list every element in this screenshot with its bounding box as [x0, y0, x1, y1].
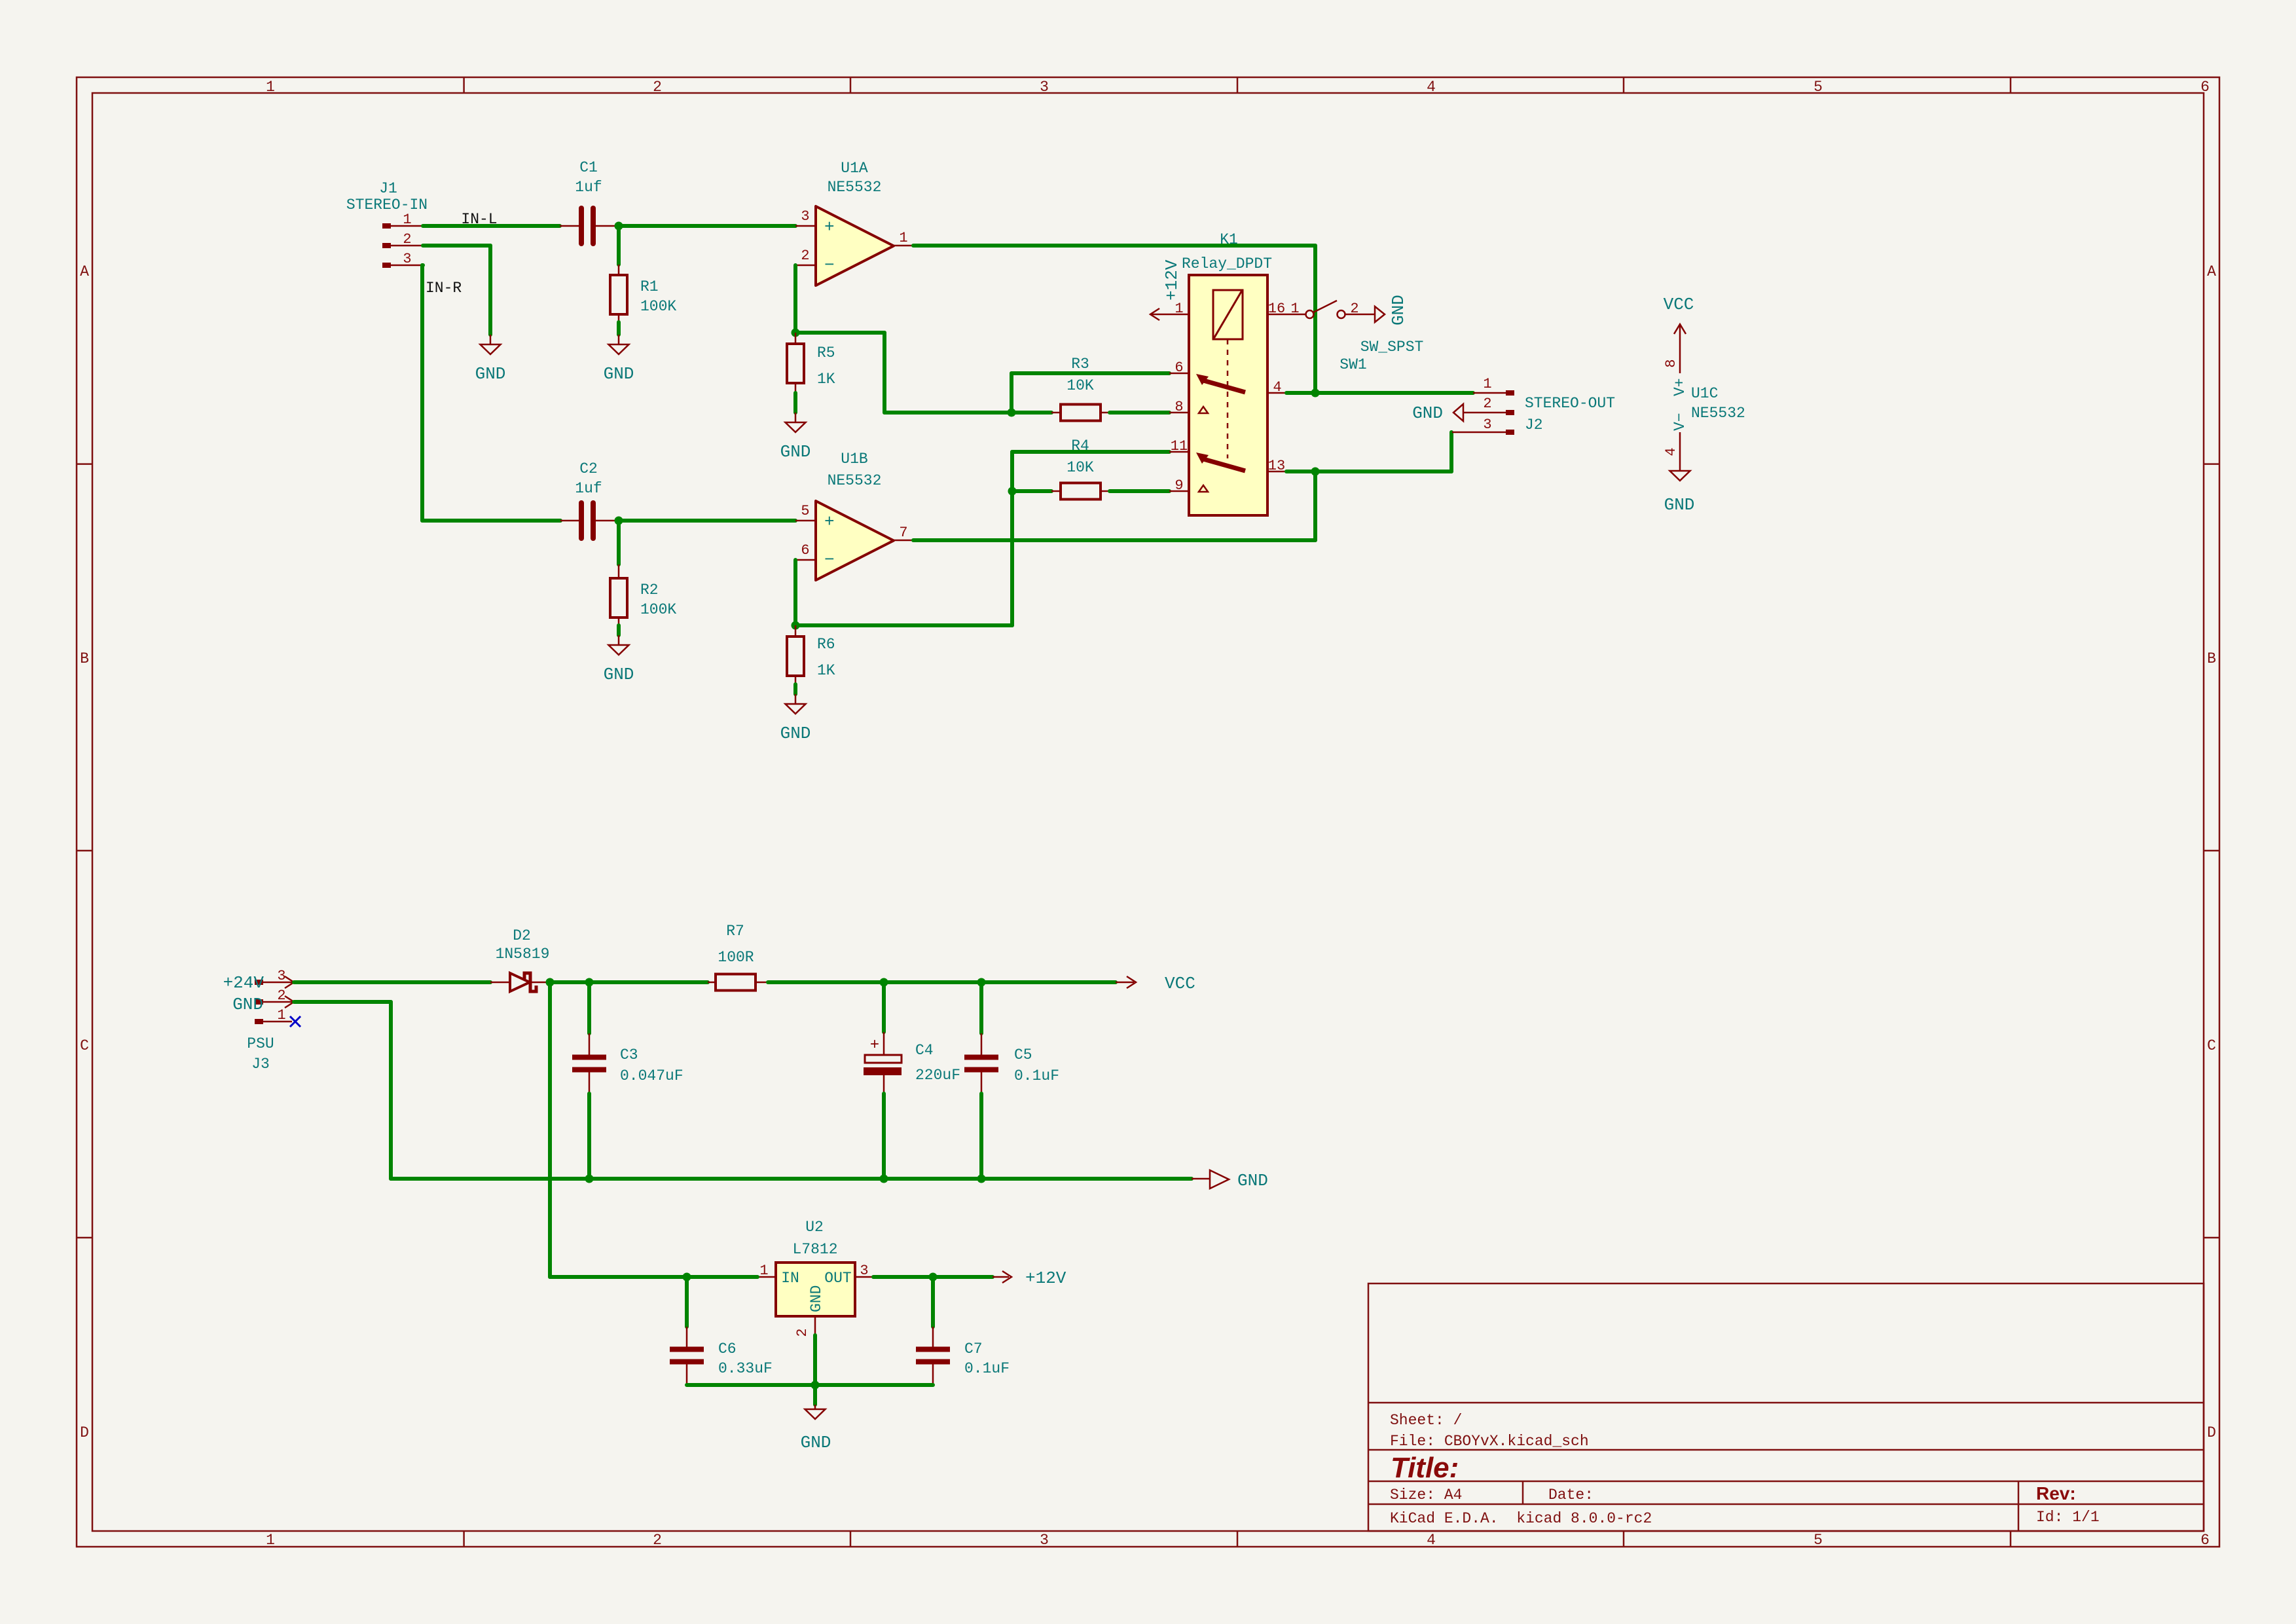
svg-text:3: 3	[277, 968, 285, 984]
wire U1B output to relay area	[913, 471, 1315, 540]
wire U1B pin6 feedback down	[793, 560, 797, 625]
svg-text:6: 6	[801, 542, 809, 559]
wire relay pin13 to J2 jog	[1286, 432, 1451, 471]
svg-text:2: 2	[653, 1532, 662, 1549]
svg-text:IN: IN	[781, 1270, 799, 1287]
svg-text:1uf: 1uf	[575, 480, 602, 497]
svg-text:SW1: SW1	[1339, 356, 1366, 373]
svg-text:1uf: 1uf	[575, 179, 602, 196]
junction D2 output node	[546, 978, 555, 987]
svg-text:VCC: VCC	[1165, 974, 1195, 993]
svg-text:10K: 10K	[1066, 377, 1094, 394]
title block Date text	[1548, 1486, 1594, 1504]
junction C3 bottom	[585, 1175, 594, 1183]
title block Sheet text	[1390, 1412, 1462, 1429]
wire node to R4	[1012, 489, 1051, 493]
svg-text:U2: U2	[805, 1219, 824, 1236]
junction C6 top	[683, 1273, 691, 1282]
svg-text:1K: 1K	[817, 662, 835, 679]
svg-text:R4: R4	[1071, 437, 1089, 454]
power flag GND at J2 pin2	[1412, 403, 1463, 423]
connector J2 STEREO-OUT	[1452, 376, 1615, 435]
svg-text:J1: J1	[379, 180, 397, 197]
svg-text:10K: 10K	[1066, 459, 1094, 476]
connector J3 PSU	[247, 968, 294, 1073]
svg-text:SW_SPST: SW_SPST	[1360, 339, 1424, 356]
svg-text:6: 6	[2200, 79, 2210, 96]
svg-text:4: 4	[1663, 447, 1679, 456]
relay K1 armature pole 1	[1196, 374, 1245, 392]
svg-text:V+: V+	[1671, 378, 1688, 396]
resistor R6	[787, 625, 835, 684]
svg-text:U1C: U1C	[1691, 385, 1718, 402]
resistor R1	[610, 265, 676, 322]
svg-text:1K: 1K	[817, 371, 835, 388]
junction C7 top	[929, 1273, 938, 1282]
svg-text:GND: GND	[1412, 403, 1443, 423]
power flag +12V	[993, 1268, 1066, 1288]
svg-text:Sheet: /: Sheet: /	[1390, 1412, 1462, 1429]
svg-text:2: 2	[653, 79, 662, 96]
svg-text:C6: C6	[718, 1340, 737, 1357]
svg-text:IN-L: IN-L	[461, 211, 497, 228]
svg-text:8: 8	[1663, 359, 1679, 367]
resistor R5	[787, 333, 835, 393]
svg-text:IN-R: IN-R	[426, 280, 462, 297]
relay K1 dashed link	[1227, 339, 1229, 458]
svg-text:5: 5	[1813, 79, 1823, 96]
junction C5 bottom	[977, 1175, 986, 1183]
svg-text:C: C	[80, 1037, 89, 1054]
svg-text:R3: R3	[1071, 356, 1089, 373]
svg-text:6: 6	[2200, 1532, 2210, 1549]
svg-text:NE5532: NE5532	[1691, 405, 1745, 422]
wire R1 top	[617, 226, 621, 265]
capacitor C5	[964, 1033, 1059, 1094]
svg-text:5: 5	[801, 503, 809, 519]
svg-text:Rev:: Rev:	[2036, 1483, 2076, 1504]
wire U1B feedback right	[795, 623, 1012, 627]
power flag GND at J3 pin2	[232, 995, 294, 1014]
svg-text:GND: GND	[604, 665, 634, 684]
wire C6 top	[685, 1277, 689, 1327]
svg-text:STEREO-OUT: STEREO-OUT	[1525, 395, 1615, 412]
wire into U2 IN	[550, 1275, 757, 1279]
svg-text:GND: GND	[604, 364, 634, 384]
junction R4 left node	[1008, 487, 1017, 496]
svg-text:2: 2	[277, 987, 285, 1004]
svg-text:1: 1	[266, 79, 275, 96]
svg-text:+: +	[870, 1037, 879, 1054]
wire GND bus	[391, 1177, 1192, 1181]
svg-text:GND: GND	[780, 724, 811, 743]
wire J3 pin2 GND to bus	[294, 1002, 391, 1179]
relay K1 pin 9	[1169, 477, 1189, 494]
regulator U2 pin 1 IN	[757, 1263, 776, 1279]
relay K1 contact pin 9	[1199, 485, 1208, 492]
ground below U1C	[1664, 471, 1695, 515]
wire C7 top	[931, 1277, 935, 1327]
svg-text:2: 2	[801, 248, 809, 264]
svg-text:100K: 100K	[640, 601, 676, 618]
wire J3 pin3 to D2	[294, 980, 490, 984]
wire IN-L J1 pin1 to C1	[423, 224, 560, 228]
svg-text:C: C	[2207, 1037, 2216, 1054]
ground below J1 pin2	[475, 335, 506, 384]
junction C4 top	[880, 978, 888, 987]
svg-text:C5: C5	[1014, 1046, 1032, 1063]
relay K1 pin 16	[1267, 301, 1286, 317]
ground below U2	[801, 1405, 831, 1452]
capacitor C6	[670, 1327, 773, 1385]
frame column labels 1-6 bottom	[266, 1532, 2210, 1549]
svg-text:A: A	[2207, 263, 2216, 280]
svg-text:+12V: +12V	[1025, 1268, 1066, 1288]
svg-text:GND: GND	[1237, 1171, 1268, 1190]
svg-text:3: 3	[403, 251, 411, 267]
svg-text:11: 11	[1171, 438, 1188, 454]
regulator U2 pin 3 OUT	[855, 1263, 873, 1279]
svg-text:C1: C1	[579, 159, 598, 176]
title block File text	[1390, 1433, 1589, 1450]
svg-text:+12V: +12V	[1162, 259, 1182, 301]
junction C1 R1 node	[615, 222, 623, 231]
svg-text:0.047uF: 0.047uF	[620, 1067, 683, 1084]
svg-text:NE5532: NE5532	[828, 472, 882, 489]
relay K1 contact pin 8	[1199, 407, 1208, 413]
relay K1 pin 1	[1150, 301, 1189, 320]
svg-text:J2: J2	[1525, 416, 1543, 434]
svg-text:Relay_DPDT: Relay_DPDT	[1182, 255, 1272, 272]
wire R6 bottom	[793, 684, 797, 694]
svg-text:KiCad E.D.A. kicad 8.0.0-rc2: KiCad E.D.A. kicad 8.0.0-rc2	[1390, 1510, 1652, 1527]
wire R2 bottom	[617, 625, 621, 635]
svg-text:GND: GND	[1389, 295, 1408, 325]
wire U2 OUT to +12V flag	[873, 1275, 993, 1279]
svg-text:GND: GND	[808, 1285, 825, 1312]
svg-text:STEREO-IN: STEREO-IN	[346, 196, 428, 213]
svg-text:1: 1	[899, 230, 907, 246]
svg-text:+: +	[824, 217, 835, 237]
svg-text:3: 3	[1040, 1532, 1049, 1549]
power flag VCC	[1116, 974, 1195, 993]
wire feedback node right	[795, 331, 884, 335]
svg-text:+24V: +24V	[223, 973, 264, 993]
wire C1 to U1A pin3	[619, 224, 795, 228]
svg-text:U1B: U1B	[841, 451, 867, 468]
wire C5 bottom	[979, 1094, 983, 1179]
svg-text:5: 5	[1813, 1532, 1823, 1549]
svg-text:File: CBOYvX.kicad_sch: File: CBOYvX.kicad_sch	[1390, 1433, 1589, 1450]
wire C2 to U1B pin5	[619, 519, 795, 523]
wire U2 GND down	[813, 1335, 817, 1405]
svg-text:OUT: OUT	[824, 1270, 851, 1287]
junction U1B feedback R6 node	[792, 621, 800, 630]
relay K1 coil	[1213, 290, 1243, 339]
svg-text:13: 13	[1268, 458, 1285, 474]
svg-text:Date:: Date:	[1548, 1486, 1594, 1504]
wire feedback to R3	[884, 411, 1051, 415]
svg-text:3: 3	[1040, 79, 1049, 96]
wire C5 top	[979, 982, 983, 1033]
relay K1 pin 11	[1169, 438, 1189, 454]
wire relay pin11 line	[1012, 450, 1169, 454]
wire J1 pin2 to GND	[423, 246, 490, 335]
svg-text:9: 9	[1175, 477, 1183, 494]
junction C4 bottom	[880, 1175, 888, 1183]
svg-text:6: 6	[1175, 360, 1183, 376]
svg-text:R1: R1	[640, 278, 659, 295]
svg-text:+: +	[824, 512, 835, 532]
junction C2 R2 node	[615, 517, 623, 525]
ground below R1	[604, 335, 634, 384]
svg-text:C3: C3	[620, 1046, 638, 1063]
wire relay pin6 line	[1011, 371, 1169, 375]
wire feedback down to R3 line	[883, 333, 886, 413]
op-amp U1A	[795, 160, 914, 286]
title block Rev label	[2036, 1483, 2076, 1504]
svg-text:Size: A4: Size: A4	[1390, 1486, 1462, 1504]
svg-text:R2: R2	[640, 581, 659, 599]
svg-text:7: 7	[899, 525, 907, 541]
svg-text:2: 2	[794, 1328, 811, 1337]
diode D2 1N5819	[490, 927, 549, 991]
svg-text:4: 4	[1273, 379, 1281, 396]
power label +12V at relay pin 1	[1162, 259, 1182, 301]
junction R3 left node	[1008, 409, 1016, 417]
label IN-L	[461, 211, 497, 228]
svg-text:100R: 100R	[718, 949, 754, 966]
svg-text:−: −	[824, 550, 835, 570]
frame row labels A-D right	[2207, 263, 2216, 1441]
wire bottom bus C6 to C7	[687, 1383, 933, 1387]
svg-text:GND: GND	[1664, 495, 1695, 515]
svg-text:A: A	[80, 263, 89, 280]
svg-text:GND: GND	[780, 442, 811, 462]
frame row labels A-D left	[80, 263, 89, 1441]
svg-text:VCC: VCC	[1664, 295, 1694, 314]
svg-text:3: 3	[860, 1263, 868, 1279]
title block Size text	[1390, 1486, 1462, 1504]
svg-text:D: D	[2207, 1424, 2216, 1441]
resistor R4	[1051, 437, 1110, 500]
svg-text:U1A: U1A	[841, 160, 868, 177]
wire R7 to VCC flag	[768, 980, 1116, 984]
svg-text:D2: D2	[513, 927, 531, 944]
label IN-R	[426, 280, 462, 297]
wire pin11 down vertical	[1010, 452, 1014, 625]
no-connect at J3 pin1	[290, 1016, 301, 1027]
resistor R2	[610, 564, 676, 625]
svg-text:4: 4	[1427, 79, 1436, 96]
svg-text:B: B	[80, 650, 89, 667]
capacitor C3	[572, 1033, 683, 1094]
relay K1 pin 6	[1169, 360, 1189, 376]
svg-text:1: 1	[1175, 301, 1183, 317]
wire U1A pin2 feedback down	[793, 265, 797, 333]
wire C4 bottom	[882, 1094, 886, 1179]
resistor R7	[708, 923, 768, 991]
svg-text:Title:: Title:	[1391, 1452, 1459, 1484]
svg-text:0.33uF: 0.33uF	[718, 1360, 773, 1377]
svg-text:V−: V−	[1671, 413, 1688, 431]
wire R3 to relay pin8	[1110, 411, 1169, 415]
junction U1A out at pin4 wire	[1311, 389, 1320, 397]
svg-text:GND: GND	[475, 364, 506, 384]
svg-text:B: B	[2207, 650, 2216, 667]
wire R1 bottom	[617, 322, 621, 335]
svg-text:L7812: L7812	[792, 1241, 837, 1258]
relay K1 body	[1182, 231, 1272, 515]
svg-text:2: 2	[1350, 301, 1358, 317]
capacitor C4 polarized	[864, 1032, 960, 1094]
wire C4 top	[882, 982, 886, 1032]
svg-text:J3: J3	[251, 1056, 270, 1073]
svg-text:C2: C2	[579, 460, 598, 477]
title block Title label	[1391, 1452, 1459, 1484]
wire IN-R J1 pin3 down and right to C2	[422, 265, 560, 521]
junction U1B out at pin13 wire	[1311, 468, 1320, 476]
wire pin6 to pin8 vertical	[1010, 373, 1013, 413]
relay K1 pin 8	[1169, 399, 1189, 415]
op-amp U1C power pins	[1663, 359, 1745, 471]
ground below R6	[780, 694, 811, 743]
title block KiCad version text	[1390, 1510, 1652, 1527]
svg-text:4: 4	[1427, 1532, 1436, 1549]
power flag GND at bus end	[1192, 1170, 1268, 1190]
title block row lines	[1368, 1403, 2204, 1531]
wire U1A output to relay area	[913, 246, 1315, 393]
wire R5 bottom	[793, 393, 797, 413]
junction U1A feedback R5 node	[792, 329, 800, 337]
svg-text:100K: 100K	[640, 298, 676, 315]
power flag +24V at J3 pin3	[223, 973, 294, 993]
svg-text:GND: GND	[801, 1433, 831, 1452]
capacitor C7	[916, 1327, 1010, 1385]
svg-text:0.1uF: 0.1uF	[1014, 1067, 1059, 1084]
junction C3 top	[585, 978, 594, 987]
wire C3 top	[587, 982, 591, 1033]
relay K1 pin 4	[1267, 379, 1286, 396]
svg-text:3: 3	[801, 208, 809, 225]
wire R2 top	[617, 521, 621, 564]
relay K1 armature pole 2	[1196, 452, 1245, 471]
svg-text:1: 1	[277, 1007, 285, 1024]
wire R4 to relay pin9	[1110, 489, 1169, 493]
power flag GND at SW1	[1375, 295, 1408, 325]
title block Id text	[2036, 1509, 2100, 1526]
svg-text:1N5819: 1N5819	[496, 946, 550, 963]
title block outline	[1368, 1283, 2204, 1531]
svg-text:GND: GND	[232, 995, 263, 1014]
wire C3 bottom	[587, 1094, 591, 1179]
svg-text:R7: R7	[726, 923, 744, 940]
junction U2 GND at bus	[811, 1381, 820, 1390]
svg-text:C7: C7	[964, 1340, 983, 1357]
resistor R3	[1051, 356, 1110, 421]
junction C5 top	[977, 978, 986, 987]
svg-text:1: 1	[266, 1532, 275, 1549]
svg-text:R6: R6	[817, 636, 835, 653]
wire relay pin4 to J2 pin1	[1286, 391, 1473, 395]
svg-text:0.1uF: 0.1uF	[964, 1360, 1010, 1377]
wire D2 to R7	[550, 980, 708, 984]
capacitor C1	[560, 159, 617, 244]
wire VCC node down to U2 IN	[548, 982, 552, 1277]
regulator U2 pin 2 GND	[794, 1316, 815, 1337]
svg-text:1: 1	[403, 212, 411, 228]
relay K1 pin 13	[1267, 458, 1286, 474]
svg-text:2: 2	[403, 231, 411, 248]
svg-text:2: 2	[1483, 396, 1491, 412]
capacitor C2	[560, 460, 617, 538]
ground below R2	[604, 635, 634, 684]
svg-text:C4: C4	[915, 1042, 934, 1059]
svg-text:8: 8	[1175, 399, 1183, 415]
svg-text:D: D	[80, 1424, 89, 1441]
regulator U2 L7812 body	[776, 1219, 855, 1316]
svg-text:K1: K1	[1220, 231, 1238, 248]
op-amp U1B	[795, 451, 914, 580]
connector J1 STEREO-IN	[346, 180, 428, 268]
svg-text:1: 1	[1483, 376, 1491, 392]
svg-text:16: 16	[1268, 301, 1285, 317]
svg-text:PSU: PSU	[247, 1035, 274, 1052]
svg-text:Id: 1/1: Id: 1/1	[2036, 1509, 2100, 1526]
frame column labels 1-6 top	[266, 79, 2210, 96]
svg-text:NE5532: NE5532	[828, 179, 882, 196]
svg-text:220uF: 220uF	[915, 1067, 960, 1084]
svg-text:−: −	[824, 255, 835, 275]
svg-text:R5: R5	[817, 344, 835, 361]
switch SW1	[1286, 301, 1423, 373]
svg-text:3: 3	[1483, 416, 1491, 433]
ground below R5	[780, 413, 811, 462]
svg-text:1: 1	[759, 1263, 768, 1279]
svg-text:1: 1	[1290, 301, 1299, 317]
power symbol VCC for U1C	[1664, 295, 1694, 373]
